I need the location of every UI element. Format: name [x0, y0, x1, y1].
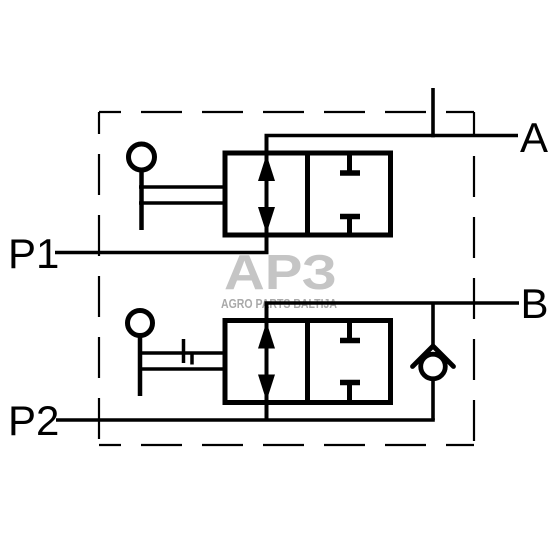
- wire P1 line: [55, 251, 269, 255]
- check valve CV1 inlet wire (from B line): [431, 305, 435, 348]
- port label A: [520, 114, 548, 161]
- valve V1 body (top section envelope, two positions): [225, 153, 391, 235]
- port label B: [521, 280, 549, 327]
- wire A line: [265, 134, 519, 138]
- port label P1: [8, 230, 59, 277]
- check valve CV1 (ball and seat): [413, 346, 454, 379]
- carry-over / tank line (vertical above port A line): [431, 88, 435, 137]
- dashed enclosure (valve body boundary): [99, 112, 474, 445]
- check valve CV1 outlet wire (to P2 line): [431, 379, 435, 421]
- valve V1 spool flow arrow (double-headed): [258, 137, 275, 253]
- port label P2: [8, 397, 59, 444]
- lever L2 (bottom section manual lever): [128, 311, 226, 397]
- wire P2 line: [56, 418, 435, 422]
- valve V2 blocked ports (closed position T symbols): [340, 321, 360, 403]
- svg-text:A: A: [520, 114, 548, 161]
- svg-text:B: B: [521, 280, 549, 327]
- valve V2 spool flow arrow (double-headed): [258, 305, 275, 421]
- svg-text:P2: P2: [8, 397, 59, 444]
- svg-text:P1: P1: [8, 230, 59, 277]
- lever L1 (top section manual lever): [129, 144, 226, 230]
- valve V2 body (bottom section envelope, two positions): [225, 321, 391, 403]
- valve V1 blocked ports (closed position T symbols): [340, 153, 360, 235]
- detent symbol on lever L2 linkage: [184, 339, 193, 365]
- wire B line: [265, 301, 520, 305]
